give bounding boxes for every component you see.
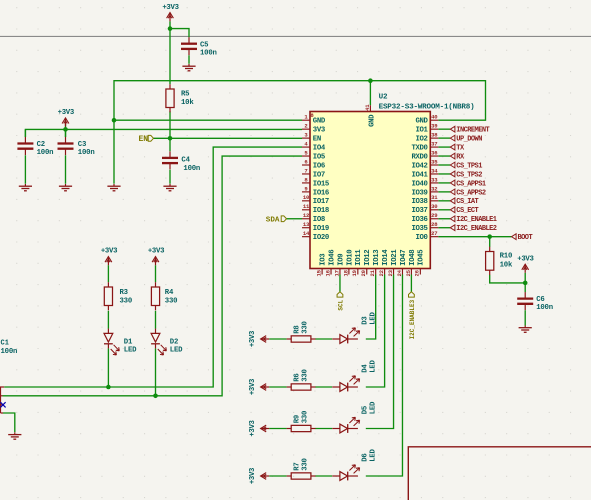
svg-text:32: 32 <box>431 185 438 192</box>
pin 13 IO19 (left) <box>302 227 310 229</box>
svg-text:LED: LED <box>370 311 378 324</box>
no-connect marker <box>1 404 3 406</box>
wire IO4 net from pin4 down-left <box>4 147 302 387</box>
svg-text:LED: LED <box>370 359 378 372</box>
svg-text:330: 330 <box>302 458 310 471</box>
capacitor C4 <box>162 157 178 159</box>
wire R10 bottom to 3V3/C6 junction <box>490 275 526 283</box>
capacitor C5 <box>181 43 197 45</box>
power +3V3 LED row 3 <box>261 425 267 432</box>
global label CS_TPS1 <box>450 162 455 168</box>
svg-text:IO15: IO15 <box>313 180 329 188</box>
svg-text:IO45: IO45 <box>418 250 426 266</box>
svg-text:3V3: 3V3 <box>313 127 326 135</box>
global label BOOT <box>512 234 517 240</box>
wire pin38 to global label UP_DOWN <box>438 137 450 139</box>
svg-text:12: 12 <box>303 212 310 219</box>
svg-text:100n: 100n <box>1 348 18 356</box>
wire D1 cathode to IO4 line <box>107 348 109 387</box>
wire pin36 to global label RX <box>438 155 450 157</box>
wire off-sheet component to ground bottom-left <box>3 413 15 432</box>
svg-text:25: 25 <box>405 269 412 276</box>
resistor R3 <box>104 287 112 306</box>
pin 30 IO37 (right) <box>430 209 438 211</box>
wire C6 bottom to ground <box>524 310 526 325</box>
svg-text:IO4: IO4 <box>313 144 326 152</box>
ground under C5 <box>188 64 190 66</box>
pin 28 IO35 (right) <box>430 227 438 229</box>
ground GND bus <box>113 184 115 186</box>
svg-text:15: 15 <box>316 269 323 276</box>
pin 3 EN (left) <box>302 137 310 139</box>
svg-text:R3: R3 <box>120 289 129 297</box>
power +3V3 at C6 <box>522 264 529 270</box>
pin 33 IO40 (right) <box>430 182 438 184</box>
pin 23 IO21 (bottom) <box>393 269 395 275</box>
svg-text:CS_ECT: CS_ECT <box>456 207 478 215</box>
sheet boundary line <box>0 35 591 37</box>
svg-text:TXD0: TXD0 <box>411 144 427 152</box>
wire LED row 3 cathode to chip pin IO21 <box>366 275 394 429</box>
svg-text:IO14: IO14 <box>382 249 390 266</box>
resistor R10 <box>486 252 494 271</box>
svg-text:IO36: IO36 <box>411 216 427 224</box>
wire IO5 net from pin5 down-left <box>3 156 303 396</box>
wire R3 to D1 <box>107 311 109 329</box>
svg-text:IO18: IO18 <box>313 207 329 215</box>
pin 27 IO0 (right) <box>430 236 438 238</box>
node C5 branch <box>168 26 173 31</box>
node GND/pin1 <box>112 118 117 123</box>
svg-text:100n: 100n <box>200 50 217 58</box>
svg-text:36: 36 <box>431 149 438 156</box>
svg-text:LED: LED <box>124 347 137 355</box>
svg-text:CS_APPS1: CS_APPS1 <box>456 180 486 188</box>
wire pin31 to global label CS_IAT <box>438 200 450 202</box>
svg-text:IO7: IO7 <box>313 171 325 179</box>
svg-text:+3V3: +3V3 <box>58 109 75 117</box>
node top GND pin <box>368 78 373 83</box>
wire LED row 4 cathode to chip pin IO47 <box>366 275 403 477</box>
svg-text:IO19: IO19 <box>313 225 329 233</box>
svg-text:41: 41 <box>364 104 371 111</box>
svg-text:EN: EN <box>139 135 149 144</box>
node D2/IO5 <box>153 394 158 399</box>
svg-text:R8: R8 <box>293 325 301 333</box>
wire GND bus top (pin40 to pin1 side) <box>114 81 486 184</box>
pin 39 IO1 (right) <box>430 128 438 130</box>
wire SDA label to pin12 <box>287 218 303 220</box>
svg-text:D6: D6 <box>361 453 369 461</box>
svg-text:330: 330 <box>302 369 310 382</box>
wire C5 to ground <box>188 55 190 64</box>
svg-text:16: 16 <box>324 269 331 276</box>
svg-text:7: 7 <box>304 167 307 174</box>
resistor R5 <box>166 89 174 108</box>
pin 29 IO36 (right) <box>430 218 438 220</box>
global label CS_APPS2 <box>450 189 455 195</box>
svg-text:35: 35 <box>431 158 438 165</box>
wire C4 top <box>169 138 171 151</box>
wire pin30 to global label CS_ECT <box>438 209 450 211</box>
svg-text:27: 27 <box>431 230 437 237</box>
svg-text:CS_TPS1: CS_TPS1 <box>456 162 482 170</box>
svg-text:+3V3: +3V3 <box>249 419 257 436</box>
svg-text:IO0: IO0 <box>416 234 428 242</box>
resistor R8 <box>291 336 311 342</box>
svg-text:+3V3: +3V3 <box>148 248 165 256</box>
ground under C2 <box>24 184 26 186</box>
svg-text:RXD0: RXD0 <box>411 153 427 161</box>
pin 4 IO4 (left) <box>302 146 310 148</box>
pin 6 IO6 (left) <box>302 164 310 166</box>
wire C4 bottom to ground <box>169 170 171 184</box>
wire C5 branch <box>170 29 189 38</box>
global label CS_IAT <box>450 198 455 204</box>
node 3V3/R10/C6 <box>523 281 528 286</box>
svg-text:R9: R9 <box>293 415 301 423</box>
pin 16 IO46 (bottom) <box>330 269 332 275</box>
pin 1 GND (left) <box>302 119 310 121</box>
resistor R7 <box>291 473 311 479</box>
svg-text:IO41: IO41 <box>411 171 428 179</box>
svg-text:IO38: IO38 <box>411 198 427 206</box>
pin 10 IO17 (left) <box>302 200 310 202</box>
svg-text:31: 31 <box>431 194 438 201</box>
svg-text:SDA: SDA <box>266 216 280 224</box>
LED D3 <box>340 335 348 344</box>
power +3V3 top <box>167 13 174 19</box>
svg-text:GND: GND <box>416 118 429 126</box>
svg-text:20: 20 <box>360 269 367 276</box>
svg-text:+3V3: +3V3 <box>162 4 179 12</box>
svg-text:IO35: IO35 <box>411 225 427 233</box>
resistor R9 <box>291 425 311 431</box>
svg-text:LED: LED <box>370 401 378 414</box>
pin 15 IO3 (bottom) <box>321 269 323 275</box>
svg-text:40: 40 <box>431 114 438 121</box>
wire +3V3 top to R5 <box>169 21 171 84</box>
LED D2 <box>151 333 160 342</box>
svg-text:22: 22 <box>378 269 385 276</box>
svg-text:11: 11 <box>303 203 310 210</box>
svg-text:IO5: IO5 <box>313 153 325 161</box>
wire pin29 to global label I2C_ENABLE1 <box>438 218 450 220</box>
pin 25 IO48 (bottom) <box>410 269 412 275</box>
pin 37 TXD0 (right) <box>430 146 438 148</box>
resistor R6 <box>291 384 311 390</box>
svg-text:30: 30 <box>431 203 438 210</box>
svg-text:ESP32-S3-WROOM-1(NBR8): ESP32-S3-WROOM-1(NBR8) <box>379 104 475 112</box>
pin 26 IO45 (bottom) <box>419 269 421 275</box>
wire pin25 IO48 to I2C_ENABLE3 label <box>410 275 412 292</box>
global label I2C_ENABLE1 <box>450 216 455 222</box>
wire pin35 to global label CS_TPS1 <box>438 164 450 166</box>
power +3V3 at R3 <box>105 257 112 263</box>
svg-text:C3: C3 <box>78 141 87 149</box>
svg-text:100n: 100n <box>78 149 95 157</box>
off-sheet pin stubs <box>0 386 4 388</box>
hierarchical label SCL <box>337 292 343 297</box>
svg-text:I2C_ENABLE2: I2C_ENABLE2 <box>456 225 497 233</box>
wire pin27 IO0 to R10 and BOOT <box>438 236 511 238</box>
svg-text:GND: GND <box>369 114 377 127</box>
svg-text:BOOT: BOOT <box>518 234 533 242</box>
svg-text:EN: EN <box>313 136 321 144</box>
svg-text:IO16: IO16 <box>313 189 329 197</box>
wire LED row 3 anode feed <box>269 428 286 430</box>
wire R4 top from +3V3 <box>155 265 157 282</box>
svg-text:38: 38 <box>431 132 438 139</box>
svg-text:330: 330 <box>302 321 310 334</box>
wire pin33 to global label CS_APPS1 <box>438 182 450 184</box>
global label CS_APPS1 <box>450 180 455 186</box>
svg-text:CS_TPS2: CS_TPS2 <box>456 171 482 179</box>
global label INCREMENT <box>450 126 455 132</box>
pin 24 IO47 (bottom) <box>401 269 403 275</box>
svg-text:C4: C4 <box>181 157 190 165</box>
svg-text:18: 18 <box>342 269 349 276</box>
svg-text:UP_DOWN: UP_DOWN <box>456 136 482 144</box>
svg-text:I2C_ENABLE3: I2C_ENABLE3 <box>409 299 416 339</box>
LED D4 <box>340 383 348 392</box>
node D1/IO4 <box>106 385 111 390</box>
svg-text:19: 19 <box>351 269 358 276</box>
svg-text:10k: 10k <box>181 99 194 107</box>
pin 11 IO18 (left) <box>302 209 310 211</box>
off-sheet component edge <box>0 387 2 414</box>
ground under C4 <box>169 184 171 186</box>
svg-text:13: 13 <box>303 221 310 228</box>
svg-text:14: 14 <box>303 230 310 237</box>
pin 36 RXD0 (right) <box>430 155 438 157</box>
pin 2 3V3 (left) <box>302 128 310 130</box>
global label CS_ECT <box>450 207 455 213</box>
global label TX <box>450 144 455 150</box>
wire EN net: label to R5/C4 junction to pin3 <box>154 137 303 139</box>
power +3V3 LED row 2 <box>261 384 267 391</box>
global label CS_TPS2 <box>450 171 455 177</box>
sheet/component outline bottom-right (partial) <box>408 447 591 500</box>
svg-text:IO9: IO9 <box>337 254 345 266</box>
global label RX <box>450 153 455 159</box>
svg-text:C2: C2 <box>37 141 45 149</box>
pin 32 IO39 (right) <box>430 191 438 193</box>
svg-text:IO1: IO1 <box>416 127 429 135</box>
pin 7 IO7 (left) <box>302 173 310 175</box>
svg-text:R7: R7 <box>293 462 301 470</box>
svg-text:100n: 100n <box>183 165 200 173</box>
svg-text:GND: GND <box>313 118 326 126</box>
pin 9 IO16 (left) <box>302 191 310 193</box>
pin 22 IO14 (bottom) <box>384 269 386 275</box>
ground bottom-left <box>14 432 16 434</box>
svg-text:10: 10 <box>303 194 310 201</box>
wire pin1 GND <box>114 119 302 121</box>
capacitor C3 <box>58 142 74 144</box>
svg-text:17: 17 <box>333 270 340 276</box>
wire C2 bottom to ground <box>24 155 26 184</box>
svg-text:IO12: IO12 <box>364 250 372 266</box>
wire pin34 to global label CS_TPS2 <box>438 173 450 175</box>
svg-text:IO47: IO47 <box>400 250 408 266</box>
node EN/R5/C4 <box>168 136 173 141</box>
svg-text:R4: R4 <box>165 289 174 297</box>
pin 18 IO10 (bottom) <box>348 269 350 275</box>
pin 20 IO12 (bottom) <box>366 269 368 275</box>
IC U2 ESP32-S3-WROOM-1 body <box>310 112 430 269</box>
svg-text:IO37: IO37 <box>411 207 427 215</box>
global label I2C_ENABLE2 <box>450 225 455 231</box>
wire C3 top <box>65 129 67 137</box>
svg-text:IO46: IO46 <box>328 250 336 266</box>
svg-text:R5: R5 <box>181 91 189 99</box>
svg-text:+3V3: +3V3 <box>249 378 257 395</box>
svg-text:D1: D1 <box>124 338 133 346</box>
svg-text:IO20: IO20 <box>313 234 329 242</box>
svg-text:24: 24 <box>396 269 403 276</box>
node IO0/R10 <box>487 234 492 239</box>
svg-text:+3V3: +3V3 <box>249 467 257 484</box>
svg-text:34: 34 <box>431 167 438 174</box>
wire R5 bottom to EN junction <box>169 111 171 138</box>
power +3V3 at R4 <box>152 257 159 263</box>
wire C2 top <box>24 129 26 137</box>
ground under C6 <box>524 326 526 328</box>
svg-text:IO11: IO11 <box>355 249 363 266</box>
svg-text:D4: D4 <box>361 364 369 373</box>
svg-text:+3V3: +3V3 <box>249 330 257 347</box>
svg-text:21: 21 <box>369 269 376 276</box>
pin 14 IO20 (left) <box>302 236 310 238</box>
wire D2 cathode to IO5 line <box>155 348 157 395</box>
pin 8 IO15 (left) <box>302 182 310 184</box>
svg-text:IO2: IO2 <box>416 136 428 144</box>
svg-text:26: 26 <box>414 269 421 276</box>
pin 17 IO9 (bottom) <box>339 269 341 275</box>
svg-text:IO40: IO40 <box>411 180 427 188</box>
svg-text:IO39: IO39 <box>411 189 427 197</box>
svg-text:IO6: IO6 <box>313 162 325 170</box>
wire R4 to D2 <box>155 311 157 329</box>
svg-text:29: 29 <box>431 212 438 219</box>
svg-text:+3V3: +3V3 <box>517 256 534 264</box>
svg-text:IO10: IO10 <box>346 250 354 266</box>
wire top GND pin to bus <box>369 81 371 106</box>
svg-text:100n: 100n <box>536 304 553 312</box>
svg-text:LED: LED <box>170 347 183 355</box>
wire pin32 to global label CS_APPS2 <box>438 191 450 193</box>
svg-text:C1: C1 <box>1 340 9 348</box>
wire R10 top <box>489 237 491 247</box>
ground under C3 <box>65 184 67 186</box>
pin 31 IO38 (right) <box>430 200 438 202</box>
capacitor C2 <box>17 142 33 144</box>
svg-text:LED: LED <box>370 448 378 461</box>
svg-text:R6: R6 <box>293 373 301 381</box>
wire R3 top from +3V3 <box>107 265 109 282</box>
svg-text:D3: D3 <box>361 316 369 325</box>
svg-text:IO8: IO8 <box>313 216 325 224</box>
pin 41 GND (top) <box>369 105 371 111</box>
svg-text:INCREMENT: INCREMENT <box>456 127 489 135</box>
svg-text:330: 330 <box>302 411 310 424</box>
wire LED row 2 cathode to chip pin IO14 <box>366 275 385 388</box>
LED D1 <box>104 333 113 342</box>
svg-text:I2C_ENABLE1: I2C_ENABLE1 <box>456 216 497 224</box>
wire pin17 IO9 to SCL label <box>339 275 341 292</box>
wire LED row 1 anode feed <box>269 338 286 340</box>
svg-text:23: 23 <box>387 269 394 276</box>
svg-text:U2: U2 <box>379 93 388 101</box>
svg-text:CS_IAT: CS_IAT <box>456 198 478 206</box>
power +3V3 at C3 <box>62 118 69 124</box>
svg-text:IO3: IO3 <box>320 253 328 266</box>
wire LED row 2 anode feed <box>269 386 286 388</box>
wire 3V3 rail to pin2 <box>25 129 302 137</box>
svg-text:330: 330 <box>120 298 133 306</box>
svg-text:10k: 10k <box>500 262 513 270</box>
pin 35 IO42 (right) <box>430 164 438 166</box>
svg-text:100n: 100n <box>37 149 54 157</box>
svg-text:330: 330 <box>165 298 178 306</box>
resistor R4 <box>151 287 159 306</box>
svg-text:CS_APPS2: CS_APPS2 <box>456 189 486 197</box>
svg-text:39: 39 <box>431 123 438 130</box>
svg-text:33: 33 <box>431 176 438 183</box>
pin 34 IO41 (right) <box>430 173 438 175</box>
wire pin37 to global label TX <box>438 146 450 148</box>
svg-text:28: 28 <box>431 221 438 228</box>
pin 12 IO8 (left) <box>302 218 310 220</box>
wire pin28 to global label I2C_ENABLE2 <box>438 227 450 229</box>
wire C3 to 3V3 rail <box>65 124 67 137</box>
wire LED row 1 cathode to chip pin IO13 <box>366 275 376 340</box>
node 3V3/C3 <box>63 127 68 132</box>
pin 21 IO13 (bottom) <box>375 269 377 275</box>
pin 38 IO2 (right) <box>430 137 438 139</box>
svg-text:R10: R10 <box>500 253 513 261</box>
pin 5 IO5 (left) <box>302 155 310 157</box>
wire C3 bottom to ground <box>65 155 67 184</box>
LED D6 <box>340 472 348 481</box>
wire C6 top <box>524 283 526 292</box>
svg-text:IO17: IO17 <box>313 198 329 206</box>
pin 19 IO11 (bottom) <box>357 269 359 275</box>
power +3V3 LED row 1 <box>261 336 267 343</box>
wire +3V3 to junction above C6 <box>524 273 526 283</box>
hierarchical label I2C_ENABLE3 <box>409 292 415 297</box>
pin 40 GND (right) <box>430 119 438 121</box>
svg-text:IO13: IO13 <box>373 249 381 266</box>
wire pin39 to global label INCREMENT <box>438 128 450 130</box>
svg-text:+3V3: +3V3 <box>101 248 118 256</box>
svg-text:37: 37 <box>431 140 437 147</box>
svg-text:D5: D5 <box>361 406 369 414</box>
power +3V3 LED row 4 <box>261 473 267 480</box>
svg-text:SCL: SCL <box>337 299 344 310</box>
svg-text:IO21: IO21 <box>391 249 399 266</box>
svg-text:IO42: IO42 <box>411 162 427 170</box>
svg-text:C6: C6 <box>536 296 544 304</box>
svg-text:D2: D2 <box>170 338 178 346</box>
capacitor C6 <box>517 297 533 299</box>
global label UP_DOWN <box>450 135 455 141</box>
LED D5 <box>340 424 348 433</box>
wire LED row 4 anode feed <box>269 475 286 477</box>
svg-text:C5: C5 <box>200 41 208 49</box>
svg-text:IO48: IO48 <box>409 250 417 266</box>
